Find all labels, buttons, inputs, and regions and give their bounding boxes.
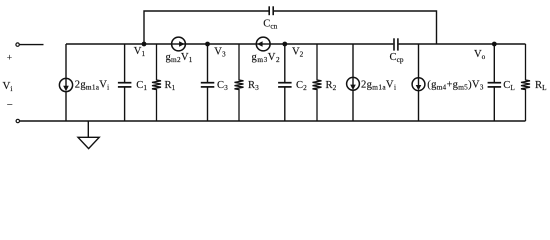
current source 2gm1aVi2 branch wire [352, 44, 354, 121]
capacitor Ccn (series, vertical plates) [268, 6, 270, 15]
svg-text:gm3V2: gm3V2 [252, 52, 281, 64]
resistor R3 [235, 44, 244, 121]
svg-text:C3: C3 [217, 80, 228, 92]
svg-text:Vi: Vi [3, 80, 13, 93]
current source 2gm1aVi circle [59, 78, 72, 91]
current source gm3V2 circle (series on bus) [256, 37, 270, 51]
ground triangle [78, 137, 99, 148]
current source gm4gm5V3 arrow [418, 78, 420, 87]
node V3 dot [205, 42, 210, 47]
wire input stub top [20, 44, 44, 46]
svg-text:Ccn: Ccn [263, 18, 277, 30]
svg-text:Vo: Vo [474, 49, 486, 61]
resistor RL [521, 44, 530, 121]
capacitor C2 leads [284, 44, 286, 82]
svg-text:2gm1aVi: 2gm1aVi [75, 80, 110, 92]
capacitor C3 plates [201, 82, 215, 84]
resistor R1 [152, 44, 161, 121]
current source 2gm1aVi arrow [65, 79, 67, 89]
current source 2gm1aVi2 arrow [352, 78, 354, 87]
current source gm4gm5V3 branch wire [418, 44, 420, 121]
svg-text:C2: C2 [296, 80, 307, 92]
node V2 dot [282, 42, 287, 47]
wire top feedback line right of Ccn [274, 11, 437, 44]
current source 2gm1aVi branch wire [65, 44, 67, 121]
current source gm3V2 arrow left [257, 41, 263, 46]
svg-text:R2: R2 [326, 80, 337, 92]
node V1 dot [142, 42, 147, 47]
wire top bus right segment (from Ccp right plate) [399, 43, 526, 45]
svg-text:RL: RL [535, 80, 547, 92]
wire top feedback line left of Ccn [144, 11, 269, 44]
resistor R2 [313, 44, 322, 121]
input terminal top-left [16, 43, 19, 46]
svg-text:R3: R3 [248, 80, 259, 92]
capacitor Ccp (series on bus, vertical plates) [393, 38, 395, 50]
svg-text:CL: CL [503, 80, 515, 92]
svg-text:V1: V1 [134, 46, 146, 58]
capacitor C2 plates [278, 82, 292, 84]
capacitor CL leads [493, 44, 495, 82]
current source gm2V1 circle (series on bus) [172, 37, 186, 51]
wire top bus left segment (to Ccp left plate) [66, 43, 393, 45]
capacitor C3 leads [207, 44, 209, 82]
current source gm4gm5V3 circle [412, 78, 425, 91]
svg-text:Ccp: Ccp [390, 52, 404, 64]
svg-text:V2: V2 [292, 47, 304, 59]
wire bottom ground bus [20, 120, 526, 122]
svg-text:2gm1aVi: 2gm1aVi [361, 80, 396, 92]
node Vo dot [492, 42, 497, 47]
input terminal bottom-left [16, 119, 19, 122]
svg-text:V3: V3 [214, 47, 226, 59]
svg-text:C1: C1 [136, 80, 147, 92]
svg-text:−: − [7, 100, 13, 111]
current source gm2V1 arrow right [179, 41, 185, 46]
capacitor C1 leads [124, 44, 126, 82]
svg-text:(gm4+gm5)V3: (gm4+gm5)V3 [427, 80, 483, 92]
capacitor CL plates [488, 82, 502, 84]
ground stub [87, 121, 89, 137]
svg-text:R1: R1 [165, 80, 176, 92]
svg-text:gm2V1: gm2V1 [166, 52, 193, 64]
current source 2gm1aVi2 circle [347, 77, 360, 90]
capacitor C1 plates [118, 82, 131, 84]
svg-text:+: + [7, 53, 12, 63]
